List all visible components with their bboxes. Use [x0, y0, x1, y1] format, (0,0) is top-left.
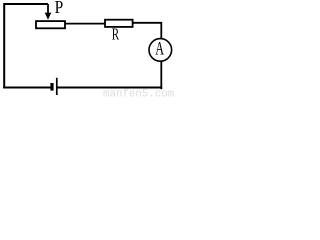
wire top (from left corner to slider arrow) [4, 4, 48, 89]
resistor R body [105, 20, 133, 27]
svg-text:manfen5.com: manfen5.com [103, 88, 174, 98]
wire bottom right to battery [58, 87, 163, 89]
ammeter A [149, 38, 172, 61]
rheostat R_P body [36, 21, 65, 28]
wire ammeter to bottom-right corner and left to battery [160, 61, 162, 89]
wire resistor to top-right corner and down to ammeter [133, 23, 161, 39]
svg-text:A: A [155, 38, 164, 59]
wire rheostat to resistor [65, 23, 105, 25]
rheostat P slider arrow [45, 4, 52, 20]
battery cell [52, 78, 57, 95]
svg-text:P: P [55, 0, 64, 17]
wire battery to bottom-left corner [3, 87, 50, 89]
svg-text:R: R [112, 25, 120, 44]
